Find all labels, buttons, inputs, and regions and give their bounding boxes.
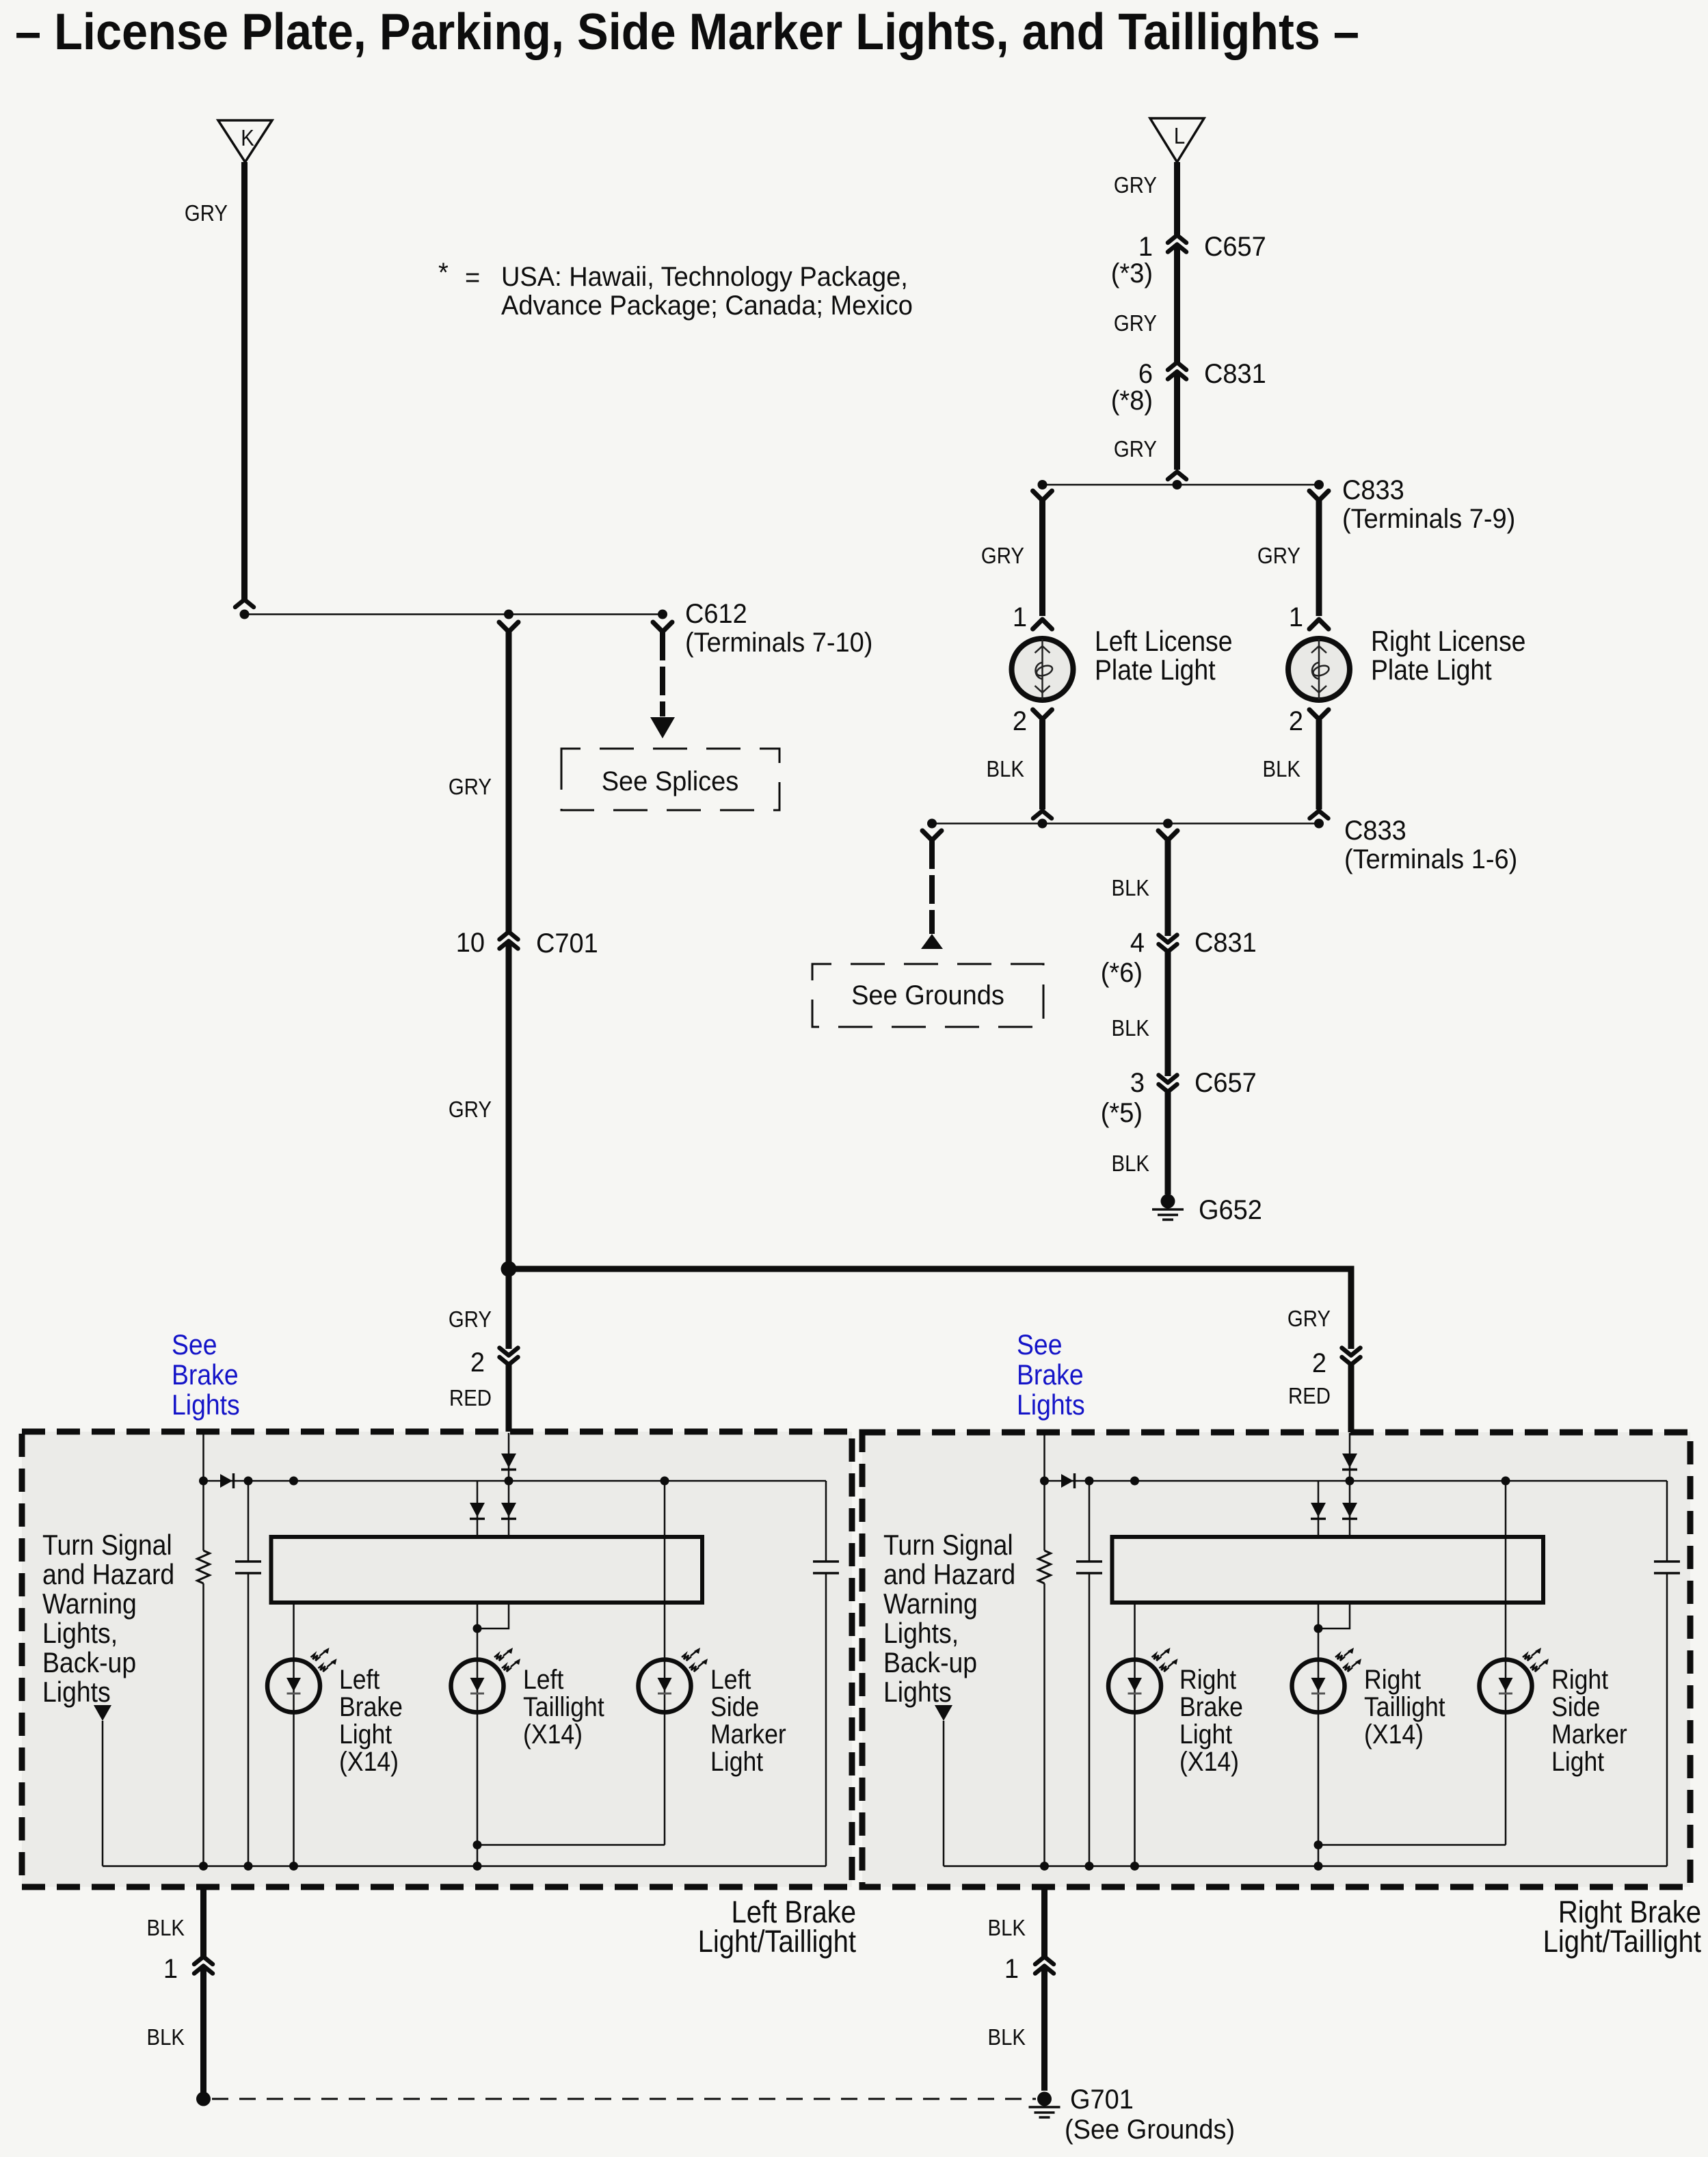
svg-text:C831: C831 bbox=[1195, 928, 1257, 958]
svg-text:BLK: BLK bbox=[1263, 756, 1301, 781]
svg-text:Taillight: Taillight bbox=[1364, 1692, 1445, 1722]
svg-text:See Grounds: See Grounds bbox=[851, 980, 1004, 1010]
svg-text:RED: RED bbox=[1288, 1383, 1331, 1408]
svg-text:(See Grounds): (See Grounds) bbox=[1065, 2115, 1235, 2145]
svg-text:(X14): (X14) bbox=[339, 1747, 399, 1777]
svg-text:Left: Left bbox=[523, 1665, 564, 1695]
svg-text:1: 1 bbox=[1004, 1954, 1019, 1984]
svg-text:Side: Side bbox=[1551, 1692, 1600, 1722]
svg-text:Light: Light bbox=[1551, 1747, 1605, 1777]
svg-text:GRY: GRY bbox=[1114, 172, 1157, 198]
svg-text:Lights: Lights bbox=[172, 1389, 240, 1421]
svg-text:Brake: Brake bbox=[172, 1359, 239, 1391]
svg-text:C831: C831 bbox=[1204, 359, 1266, 389]
svg-text:C612: C612 bbox=[685, 599, 747, 629]
svg-text:Turn Signal: Turn Signal bbox=[42, 1529, 172, 1561]
svg-text:GRY: GRY bbox=[449, 1097, 492, 1122]
svg-text:(Terminals 7-9): (Terminals 7-9) bbox=[1342, 504, 1515, 534]
svg-text:10: 10 bbox=[456, 928, 485, 958]
svg-text:See: See bbox=[1017, 1329, 1063, 1361]
svg-text:GRY: GRY bbox=[981, 543, 1024, 568]
svg-text:GRY: GRY bbox=[449, 1307, 492, 1332]
svg-text:Right: Right bbox=[1179, 1665, 1237, 1695]
svg-text:RED: RED bbox=[449, 1385, 492, 1410]
svg-text:Marker: Marker bbox=[710, 1719, 786, 1750]
svg-text:Brake: Brake bbox=[339, 1692, 403, 1722]
svg-text:1: 1 bbox=[1013, 602, 1027, 632]
svg-text:C833: C833 bbox=[1342, 475, 1404, 505]
svg-text:G701: G701 bbox=[1070, 2085, 1134, 2115]
svg-text:Turn Signal: Turn Signal bbox=[883, 1529, 1013, 1561]
svg-text:Right: Right bbox=[1364, 1665, 1422, 1695]
svg-text:C833: C833 bbox=[1344, 816, 1406, 846]
svg-text:(*5): (*5) bbox=[1101, 1098, 1143, 1128]
svg-text:(X14): (X14) bbox=[523, 1719, 583, 1750]
svg-text:(X14): (X14) bbox=[1179, 1747, 1239, 1777]
svg-text:(*3): (*3) bbox=[1111, 258, 1153, 289]
svg-text:Lights: Lights bbox=[1017, 1389, 1085, 1421]
svg-text:GRY: GRY bbox=[1257, 543, 1300, 568]
svg-text:Warning: Warning bbox=[883, 1588, 978, 1620]
svg-text:Brake: Brake bbox=[1017, 1359, 1084, 1391]
svg-text:C657: C657 bbox=[1195, 1068, 1257, 1098]
svg-text:and Hazard: and Hazard bbox=[883, 1559, 1015, 1590]
svg-text:– License Plate, Parking, Side: – License Plate, Parking, Side Marker Li… bbox=[15, 3, 1359, 60]
svg-text:Taillight: Taillight bbox=[523, 1692, 604, 1722]
svg-text:BLK: BLK bbox=[1112, 875, 1150, 900]
svg-text:Back-up: Back-up bbox=[42, 1647, 136, 1678]
svg-text:Marker: Marker bbox=[1551, 1719, 1627, 1750]
svg-text:=: = bbox=[465, 263, 480, 293]
svg-text:2: 2 bbox=[1289, 706, 1303, 736]
svg-text:and Hazard: and Hazard bbox=[42, 1559, 174, 1590]
svg-text:Right: Right bbox=[1551, 1665, 1609, 1695]
svg-text:G652: G652 bbox=[1199, 1195, 1262, 1225]
svg-text:BLK: BLK bbox=[988, 1915, 1026, 1940]
svg-text:2: 2 bbox=[1312, 1348, 1326, 1378]
svg-text:GRY: GRY bbox=[185, 200, 228, 226]
svg-text:BLK: BLK bbox=[988, 2024, 1026, 2050]
svg-text:(*8): (*8) bbox=[1111, 386, 1153, 416]
svg-text:Back-up: Back-up bbox=[883, 1647, 977, 1678]
svg-text:BLK: BLK bbox=[147, 2024, 185, 2050]
svg-text:6: 6 bbox=[1138, 359, 1153, 389]
svg-text:Plate Light: Plate Light bbox=[1095, 654, 1216, 686]
svg-text:1: 1 bbox=[163, 1954, 178, 1984]
svg-text:See Splices: See Splices bbox=[602, 766, 739, 796]
svg-text:2: 2 bbox=[470, 1348, 485, 1378]
svg-text:4: 4 bbox=[1130, 928, 1145, 958]
svg-text:Plate Light: Plate Light bbox=[1371, 654, 1492, 686]
svg-text:(Terminals 1-6): (Terminals 1-6) bbox=[1344, 844, 1517, 874]
svg-text:Advance Package; Canada; Mexic: Advance Package; Canada; Mexico bbox=[501, 291, 913, 321]
svg-text:Right License: Right License bbox=[1371, 626, 1525, 657]
svg-text:Lights: Lights bbox=[883, 1676, 952, 1708]
svg-text:Lights,: Lights, bbox=[42, 1618, 118, 1649]
svg-text:GRY: GRY bbox=[449, 774, 492, 799]
svg-text:BLK: BLK bbox=[1112, 1015, 1150, 1041]
svg-text:BLK: BLK bbox=[147, 1915, 185, 1940]
svg-text:C701: C701 bbox=[536, 928, 598, 959]
svg-text:Warning: Warning bbox=[42, 1588, 137, 1620]
svg-text:1: 1 bbox=[1289, 602, 1303, 632]
svg-text:BLK: BLK bbox=[1112, 1151, 1150, 1176]
svg-text:Light/Taillight: Light/Taillight bbox=[1543, 1925, 1702, 1959]
svg-text:1: 1 bbox=[1138, 232, 1153, 262]
svg-text:2: 2 bbox=[1013, 706, 1027, 736]
svg-text:(Terminals 7-10): (Terminals 7-10) bbox=[685, 628, 872, 658]
svg-text:Lights: Lights bbox=[42, 1676, 111, 1708]
svg-text:Lights,: Lights, bbox=[883, 1618, 959, 1649]
svg-text:GRY: GRY bbox=[1287, 1306, 1331, 1331]
svg-text:Side: Side bbox=[710, 1692, 759, 1722]
svg-text:(*6): (*6) bbox=[1101, 958, 1143, 988]
svg-text:USA: Hawaii, Technology Packag: USA: Hawaii, Technology Package, bbox=[501, 262, 908, 292]
svg-text:Light: Light bbox=[339, 1719, 392, 1750]
svg-text:*: * bbox=[438, 258, 449, 288]
svg-text:Brake: Brake bbox=[1179, 1692, 1243, 1722]
svg-text:GRY: GRY bbox=[1114, 436, 1157, 461]
svg-text:Left: Left bbox=[710, 1665, 751, 1695]
svg-text:(X14): (X14) bbox=[1364, 1719, 1424, 1750]
svg-text:Left License: Left License bbox=[1095, 626, 1233, 657]
svg-text:Light: Light bbox=[1179, 1719, 1233, 1750]
svg-text:GRY: GRY bbox=[1114, 310, 1157, 336]
svg-text:C657: C657 bbox=[1204, 232, 1266, 262]
svg-text:See: See bbox=[172, 1329, 217, 1361]
svg-text:3: 3 bbox=[1130, 1068, 1145, 1098]
svg-text:K: K bbox=[241, 125, 254, 150]
svg-text:Light: Light bbox=[710, 1747, 764, 1777]
svg-text:Left: Left bbox=[339, 1665, 380, 1695]
svg-text:BLK: BLK bbox=[987, 756, 1025, 781]
svg-text:L: L bbox=[1174, 123, 1185, 148]
svg-text:Light/Taillight: Light/Taillight bbox=[698, 1925, 857, 1959]
